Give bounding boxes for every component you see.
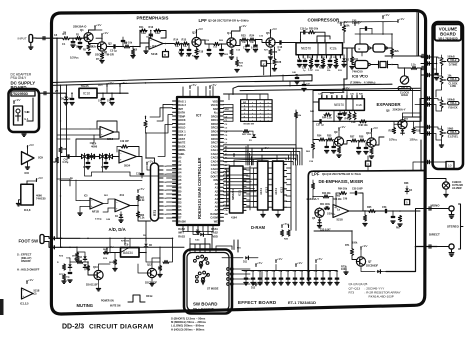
+9V at IC9 [106,248,108,251]
svg-text:4: 4 [367,162,369,166]
transistor Q7 [356,257,365,266]
svg-text:+9V: +9V [277,257,284,261]
svg-text:CAG3: CAG3 [211,157,219,160]
wire compressor to expander [344,48,347,90]
svg-text:C29: C29 [244,271,248,273]
transistor Q8 2SK30A-Y [398,120,407,129]
svg-text:STEREO: STEREO [447,224,460,228]
svg-text:2SC2603F: 2SC2603F [366,265,378,268]
svg-text:ON/OFF: ON/OFF [21,259,31,263]
IC9 BA634 [121,248,140,258]
svg-text:+5V: +5V [139,187,146,191]
svg-text:+5V: +5V [148,159,155,163]
svg-text:C36: C36 [293,271,297,273]
+5V at comparator [137,190,139,193]
svg-text:R28: R28 [277,61,282,64]
wire Q4 base row [220,43,228,45]
resistor R62 [136,195,139,201]
svg-text:IC7: IC7 [196,114,201,118]
capacitor C43 [111,93,113,98]
dc board +9V arrow [13,101,15,104]
capacitor C37 to gnd [365,143,367,147]
+9V arrow VCO [382,16,384,19]
wire IC1b inputs from rail [61,128,91,130]
wire Q5 to C18 [275,42,280,44]
main effect board outline [51,11,425,314]
capacitor C15 to gnd [247,40,249,45]
vertical drops compressor mid [282,75,284,81]
svg-text:RASM: RASM [210,213,217,216]
svg-text:DE-EMPHASIS, MIXER: DE-EMPHASIS, MIXER [319,179,364,184]
wire IC9 out [146,253,160,263]
svg-text:+9V: +9V [271,27,278,31]
bus wires between drams [243,167,258,169]
svg-text:16: 16 [54,33,58,37]
svg-text:CAG1: CAG1 [211,149,219,152]
wire Q8 connections [393,121,395,127]
resistor R14 [175,42,181,45]
svg-text:≋: ≋ [358,47,361,51]
svg-text:R65: R65 [367,206,372,209]
jumper box node B [163,52,169,58]
diode D9 [65,93,67,96]
svg-text:ON Δt: ON Δt [146,295,153,298]
svg-text:Q1: Q1 [80,28,84,32]
svg-text:DRC5: DRC5 [211,134,218,137]
svg-text:5: 5 [406,201,408,205]
compressor left pin caps [299,58,301,60]
svg-text:CASM: CASM [210,217,217,220]
volume board pot VR-4 F.BACK [440,100,443,108]
+9V arrow at Q2 [101,34,103,37]
dc supply board outline [9,89,40,132]
rotary wiper arrows [199,265,204,270]
mode table [241,100,273,122]
svg-text:R57: R57 [350,136,355,139]
wire R26 top [343,22,345,25]
compressor bottom RC C21 [316,58,318,60]
svg-text:R52: R52 [389,130,394,133]
wire Q5 base [255,40,266,43]
dc jack J2 [14,106,23,125]
svg-text:BN-1 7523453D: BN-1 7523453D [193,307,214,311]
svg-text:S (SHORT) 12.5ms ~ 50ms: S (SHORT) 12.5ms ~ 50ms [171,317,206,321]
svg-text:MONO: MONO [431,204,441,208]
wire base Q10 [88,262,94,275]
second vertical rail [60,85,62,247]
svg-text:R26: R26 [338,22,343,25]
resistor R13 feedback [154,29,161,32]
svg-text:Q9: Q9 [334,130,338,134]
svg-text:RAG 2: RAG 2 [178,104,186,107]
transistor Q2 2SC732 [97,42,106,51]
svg-text:IC1: IC1 [152,44,157,48]
svg-text:RAS1: RAS1 [178,224,185,227]
svg-text:1M: 1M [63,32,66,34]
expander IC2b NE570 [319,99,365,111]
svg-text:10k: 10k [346,25,351,28]
svg-text:+9V: +9V [241,24,248,28]
+5V arrow rail [119,84,121,87]
svg-text:HOLD: HOLD [178,123,185,126]
svg-text:R54: R54 [317,135,322,138]
svg-text:R44 20k: R44 20k [333,198,342,201]
svg-text:MB8264: MB8264 [231,189,235,200]
svg-text:100k: 100k [341,268,347,271]
wire vco out right [385,47,392,49]
svg-text:5218: 5218 [337,218,344,222]
svg-text:HIGH: HIGH [401,93,408,97]
ticks top right border [421,54,423,57]
svg-text:NE570: NE570 [334,103,344,107]
svg-text:+9V: +9V [103,31,110,35]
input jack J1 [29,35,33,43]
svg-text:IC4b: IC4b [195,239,200,242]
svg-text:R73: R73 [153,210,157,216]
feedback wire opamp IC5b [336,192,340,194]
svg-text:DRC7: DRC7 [211,142,218,145]
svg-text:IC10: IC10 [83,92,90,96]
svg-text:2.2k: 2.2k [92,47,97,49]
bypass caps row [245,274,247,278]
svg-text:ET-1 7523461D: ET-1 7523461D [288,300,316,305]
svg-text:2.1k: 2.1k [411,63,416,66]
left rail junctions [57,138,70,140]
svg-text:RAS3: RAS3 [178,235,185,238]
compressor bottom RC C22 [329,58,331,60]
muting waveform [128,295,145,302]
svg-text:0.047μ: 0.047μ [251,47,259,50]
inner box LPF de-emphasis mixer [308,171,425,281]
wire Q8 top to border [403,113,421,117]
wire expander to Q8 gate [370,120,400,122]
svg-text:Q2-Q6 2SC732TM-GR fc=10kHz: Q2-Q6 2SC732TM-GR fc=10kHz [208,19,249,23]
svg-text:Q9-Q10 2SC732TM-GR fc=7kHz: Q9-Q10 2SC732TM-GR fc=7kHz [322,172,362,176]
svg-text:DOUT: DOUT [211,175,219,178]
schmitt inverter IC8c [355,61,368,69]
transistor Q12 muting [147,268,156,277]
svg-text:R24: R24 [250,35,255,38]
svg-text:R15: R15 [182,39,187,42]
svg-text:RAS1: RAS1 [211,228,218,231]
svg-text:74HC05: 74HC05 [36,197,46,201]
svg-text:IC4,8: IC4,8 [24,208,31,212]
wire R9 junction to rail [123,46,124,48]
capacitor C13b [141,171,143,173]
svg-text:OUT: OUT [98,85,103,87]
svg-text:R55: R55 [327,135,332,138]
svg-text:Q10: Q10 [93,266,98,269]
wires IC7 left to mid [157,104,173,121]
capacitor C1 [72,38,74,41]
VCO wires to border [392,65,411,69]
resistor R26 [342,25,345,32]
+9V at Q3 [196,30,198,33]
svg-text:2SA1115F: 2SA1115F [86,284,98,287]
sw board contact pads [227,268,230,271]
svg-text:C32: C32 [265,271,269,273]
wire 4066 control [85,160,92,176]
svg-text:L (LONG) 200ms ~ 800ms: L (LONG) 200ms ~ 800ms [171,324,205,328]
diode D12 [253,282,256,285]
resistor R1 [63,37,70,40]
resistor R9 [124,45,130,48]
svg-text:R14: R14 [174,39,179,42]
capacitor C34 to gnd [326,140,328,147]
ground Q4 [229,56,233,58]
svg-text:0.47μ: 0.47μ [63,161,69,164]
op-amp IC1b [100,127,114,138]
svg-text:b.1: b.1 [25,117,29,121]
svg-text:Q10: Q10 [366,131,372,135]
svg-text:INPUT: INPUT [18,36,27,40]
connector box node 2 [261,61,267,66]
analog switch IC4c [100,154,103,158]
resistor R7 at Q2 emitter [100,53,103,59]
svg-text:IC2b: IC2b [356,103,363,107]
compressor bottom RC R31 [309,59,312,65]
svg-text:C35: C35 [286,271,290,273]
data bus IC7 to drams [224,164,230,166]
capacitor C19 feedback [303,31,305,34]
resistor R65 [369,209,376,212]
transistor Q9 [334,137,343,146]
svg-text:+9V: +9V [197,27,204,31]
svg-text:R73: R73 [349,291,355,295]
svg-text:WE: WE [214,220,218,223]
svg-text:R58: R58 [359,136,364,139]
svg-text:CAG7: CAG7 [211,172,219,175]
resistor R18 Q3 emitter [195,49,198,55]
svg-text:POWER ON: POWER ON [101,301,114,303]
svg-text:+9V: +9V [28,278,35,282]
svg-text:TEMP: TEMP [178,115,185,118]
resistor R23 [241,38,247,41]
dram IC11 4164 [230,166,244,213]
wire dc board to IC10 [39,92,66,94]
svg-text:ST MODE: ST MODE [207,288,219,291]
svg-text:+5V: +5V [211,83,218,87]
svg-text:10k: 10k [163,182,166,184]
resistor R53 [412,128,415,134]
VCO wires [370,47,373,49]
svg-text:Q4: Q4 [227,31,231,35]
svg-text:+9V: +9V [362,244,369,248]
svg-text:IC8 VCO: IC8 VCO [352,74,368,79]
svg-text:CAG6: CAG6 [211,168,219,171]
expander bottom caps [339,110,341,113]
svg-text:RAG 1: RAG 1 [178,100,186,103]
svg-text:M (MIDDLE) 50ms ~ 200ms: M (MIDDLE) 50ms ~ 200ms [171,320,206,324]
resistor R63 [136,212,139,218]
resistor R76 [77,260,83,263]
svg-text:C39: C39 [314,271,318,273]
svg-text:DRC1: DRC1 [211,119,218,122]
svg-text:R23: R23 [241,35,246,38]
resistor R48 row [360,120,367,123]
volume board internal wires [433,57,442,58]
svg-text:1/2Vcc: 1/2Vcc [70,56,79,60]
svg-text:R44 20k: R44 20k [322,192,331,195]
svg-text:DD-2/3: DD-2/3 [62,324,84,331]
resistor R80 q12 [163,260,169,263]
svg-text:C27 1μ: C27 1μ [316,124,324,127]
svg-text:+9V: +9V [15,98,22,102]
svg-text:H (HOLD) 200ms ~ 800ms: H (HOLD) 200ms ~ 800ms [171,327,205,331]
svg-text:LOW: LOW [450,85,456,88]
vertical bus right of IC7 [247,145,249,165]
op-amp IC5b mixer [333,205,349,218]
svg-text:R68: R68 [404,182,409,185]
schmitt inverter IC8a [355,44,368,52]
svg-text:DRC6: DRC6 [211,138,218,141]
compressor bottom RC R32 [321,59,324,65]
svg-text:Q3: Q3 [192,31,196,35]
svg-text:R46: R46 [345,118,350,121]
wire mixer to Q7 [351,231,353,249]
svg-text:DACK: DACK [178,145,185,148]
svg-text:VR-4: VR-4 [450,101,457,105]
svg-text:NE570: NE570 [301,47,311,51]
capacitor C2 at Q1 gate [79,38,81,42]
transistor Q10 [367,138,376,147]
dc board wires [27,120,33,122]
svg-text:DATH: DATH [178,112,185,115]
diode D7 dram [195,234,199,236]
wire comparator out [130,205,138,207]
q12 emitter net [158,266,161,271]
junction dots rails [270,75,272,77]
stereo bracket [459,204,461,249]
svg-text:R44 2.1k: R44 2.1k [322,117,332,120]
svg-text:+5V: +5V [191,83,198,87]
R73 left stubs [147,166,151,170]
wire IC1a out [163,43,174,45]
compressor net under Q5 [236,57,238,60]
dc supply board part number label [11,91,35,96]
capacitor C27 [319,120,321,123]
mixer input resistors [325,206,330,209]
mixer out wire [349,210,420,212]
muting base networks [104,251,109,254]
de-emph input network [311,183,314,189]
svg-text:BA634: BA634 [123,251,133,255]
svg-text:IC13: IC13 [280,187,284,193]
volume board chain wires [441,68,443,74]
trimmer VR-3 clock [400,76,408,84]
svg-text:COMPRESSOR: COMPRESSOR [308,18,341,23]
long bias rail lower [51,81,312,86]
capacitor C11 to gnd [188,44,190,50]
svg-text:+9V: +9V [96,23,103,27]
long muting wire [57,237,173,239]
svg-text:+5V: +5V [317,257,324,261]
connector ticks outputs [428,207,430,210]
IC power pin box IC4 8 [21,184,34,205]
svg-text:SD2: SD2 [213,108,218,111]
volume board title box [435,24,462,40]
comparator feedback [103,199,115,204]
wire chain input to Q1 [70,37,86,39]
svg-text:C50 100P: C50 100P [352,188,363,191]
wire row to Q9 input [313,139,319,141]
capacitor C16 to gnd [255,40,257,45]
wire to IC1b input [90,128,100,130]
svg-text:EFFECT BOARD: EFFECT BOARD [238,300,277,305]
feedback wire IC1b [97,121,117,132]
connector ticks volume board [427,55,429,58]
+9V arrows caps row [275,260,277,263]
svg-text:C30: C30 [251,271,255,273]
svg-text:+9V: +9V [372,126,379,130]
connector tick input [42,37,44,40]
bypass row wire [242,270,337,272]
resistor R57 [351,139,358,142]
dram right pins to vertical bus [287,167,292,169]
svg-text:C33: C33 [272,271,276,273]
svg-text:C5 1μ: C5 1μ [110,50,117,53]
transistor Q4 2SC732 [227,38,236,47]
svg-text:MUTE: MUTE [178,142,185,145]
capacitor C36 to gnd [358,141,360,148]
+9V at Q5 [270,30,272,33]
svg-text:CIRCUIT DIAGRAM: CIRCUIT DIAGRAM [89,324,154,331]
svg-text:VR-3: VR-3 [450,77,457,81]
ground Q5 emitter [268,56,272,58]
svg-text:10k: 10k [163,206,166,208]
svg-text:2: 2 [263,62,265,66]
wire IC2b out to row [333,110,335,121]
wire 4p row [61,180,143,182]
svg-text:LN-2MW: LN-2MW [452,187,462,190]
svg-text:CAG2: CAG2 [211,153,219,156]
svg-text:+9V: +9V [384,13,391,17]
wire comparator to R73 [138,211,146,221]
svg-text:DRC2: DRC2 [211,123,218,126]
junction dots muting wires [69,247,71,249]
compressor right diode D2 [343,55,345,58]
resistor R64 feedback [340,191,347,194]
svg-text:MUTING: MUTING [77,303,94,308]
svg-text:10: 10 [448,164,452,168]
wire D6 column [145,221,147,241]
svg-text:HOCK: HOCK [178,119,186,122]
horizontal rail to expander [313,90,420,92]
svg-text:Q8: Q8 [386,109,390,113]
cap C47 mid [303,81,305,84]
capacitor C8 feedback [149,33,152,35]
svg-text:DRC3: DRC3 [211,127,218,130]
capacitor C18 [279,41,281,44]
capacitor C42 [102,93,104,98]
volume board outline [433,22,463,169]
diode D4 right [406,186,408,188]
resistor R11 feedback [140,29,147,32]
resistor R59 Q10 emitter [370,148,373,154]
sw wires join [189,238,191,244]
long hold wire [61,246,185,248]
volume board pot VR-2 D.TIME [440,58,443,66]
foot switch jack [40,235,44,244]
diode D7 comparator [120,212,122,214]
svg-text:R13: R13 [149,26,154,29]
svg-text:R48 10k: R48 10k [359,124,369,127]
wire from box2 down [263,66,265,75]
svg-text:1μ: 1μ [278,49,281,52]
analog switch IC4b [89,154,92,158]
svg-text:R41 100k: R41 100k [242,133,252,136]
wire Q1 to Q2 [89,42,98,44]
